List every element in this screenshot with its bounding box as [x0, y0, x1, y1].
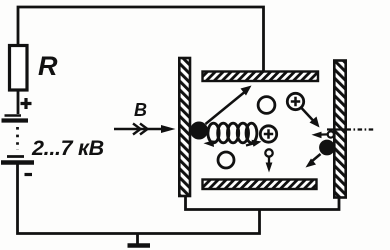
svg-text:В: В	[134, 100, 147, 120]
svg-text:2...7 кВ: 2...7 кВ	[31, 136, 104, 160]
svg-text:R: R	[38, 51, 58, 81]
